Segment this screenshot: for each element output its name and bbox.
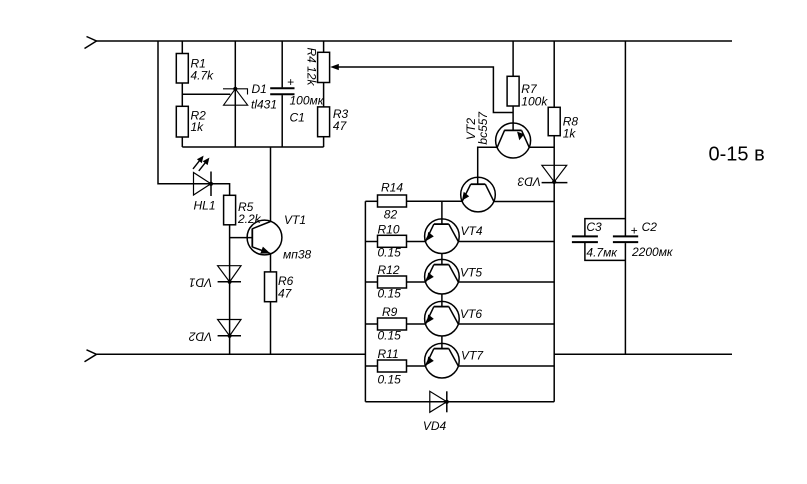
wire R4 wiper to VT2 base — [338, 67, 513, 113]
wire VT5-VT6 link — [441, 294, 443, 307]
svg-text:HL1: HL1 — [194, 199, 216, 213]
transistor VT2 — [496, 123, 531, 158]
wire R1-R2 — [181, 83, 183, 106]
svg-text:4.7k: 4.7k — [191, 68, 215, 82]
wire HL1 to R5 — [211, 184, 230, 196]
transistor VT4 — [425, 219, 460, 254]
resistor R8 — [548, 107, 560, 135]
input terminal bottom — [85, 350, 97, 362]
svg-text:D1: D1 — [252, 82, 267, 96]
input terminal top — [85, 37, 97, 49]
svg-text:VT1: VT1 — [284, 213, 306, 227]
svg-text:VT6: VT6 — [460, 307, 482, 321]
wire VT6 collector — [458, 323, 554, 325]
svg-text:C3: C3 — [586, 220, 602, 234]
wire VT3 emitter row / R14 — [406, 200, 462, 202]
svg-text:R10: R10 — [378, 222, 400, 236]
wire VD4 row left — [365, 401, 554, 403]
svg-text:VD4: VD4 — [423, 419, 447, 433]
svg-text:2.2k: 2.2k — [237, 212, 262, 226]
wire R2 bottom — [181, 137, 183, 147]
wire VT3 collector — [494, 201, 554, 203]
svg-text:0.15: 0.15 — [378, 246, 402, 260]
wire R7 top — [512, 41, 514, 76]
wire VT5 collector — [458, 281, 554, 283]
svg-text:VT5: VT5 — [460, 266, 482, 280]
wire bottom rail left — [97, 353, 366, 355]
wire bottom rail right — [554, 353, 732, 355]
svg-text:+: + — [287, 75, 294, 89]
op-amp D1 tl431 — [223, 89, 248, 105]
svg-text:R9: R9 — [382, 305, 398, 319]
capacitor C3 — [585, 219, 626, 236]
svg-text:1k: 1k — [563, 127, 577, 141]
svg-text:47: 47 — [278, 287, 293, 301]
resistor R11 — [365, 365, 377, 367]
diode VD2 — [218, 320, 241, 336]
wire R10 to VT4 emitter — [407, 241, 426, 243]
wire VT4 base — [441, 201, 443, 224]
transistor VT3 — [461, 177, 496, 212]
svg-text:VD1: VD1 — [189, 275, 212, 289]
svg-text:tl431: tl431 — [251, 98, 277, 112]
wire D1 column — [234, 41, 236, 147]
resistor R6 — [265, 272, 277, 302]
svg-text:4.7мк: 4.7мк — [586, 246, 618, 260]
resistor R5 — [224, 195, 236, 225]
svg-text:82: 82 — [384, 208, 398, 222]
svg-text:C1: C1 — [290, 110, 305, 124]
svg-text:0.15: 0.15 — [378, 373, 402, 387]
wire R11 to VT7 emitter — [407, 365, 426, 367]
diode VD4 — [430, 391, 447, 412]
resistor R12 — [365, 281, 377, 283]
svg-text:R14: R14 — [381, 180, 403, 194]
wire VT6-VT7 link — [441, 336, 443, 349]
wire right rail — [553, 182, 555, 402]
wire R4-R3 — [323, 83, 325, 107]
svg-text:R12: R12 — [378, 263, 400, 277]
svg-text:0-15 в: 0-15 в — [709, 143, 765, 165]
resistor R9 — [365, 323, 377, 325]
resistor R3 — [318, 107, 330, 137]
wire VT4 collector — [458, 241, 554, 243]
resistor R14 — [365, 200, 377, 202]
transistor VT1 — [247, 220, 282, 255]
svg-text:2200мк: 2200мк — [631, 245, 674, 259]
wire R3 bottom — [323, 137, 325, 147]
resistor R4 (pot) — [323, 41, 325, 52]
wire VT2 collector to VT3 base — [478, 147, 498, 184]
wire VT1 collector — [270, 147, 272, 222]
svg-text:1k: 1k — [191, 120, 205, 134]
svg-text:0.15: 0.15 — [378, 287, 402, 301]
wire R1 top — [181, 41, 183, 54]
wire R7 to VT2 base — [512, 106, 514, 130]
transistor VT5 — [425, 259, 460, 294]
wire divider to D1 ref — [182, 93, 230, 95]
svg-text:VD3: VD3 — [517, 175, 541, 189]
transistor VT6 — [425, 301, 460, 336]
resistor R7 — [507, 76, 519, 106]
diode VD3 — [542, 165, 567, 182]
svg-text:VT4: VT4 — [461, 224, 483, 238]
wire VT7 collector — [458, 365, 554, 367]
svg-text:R11: R11 — [378, 347, 399, 361]
transistor VT7 — [425, 343, 460, 378]
capacitor C2 — [624, 41, 626, 236]
svg-text:R4 12k: R4 12k — [305, 48, 319, 87]
wire R5 to VD column — [229, 225, 231, 354]
svg-text:100k: 100k — [521, 95, 548, 109]
svg-text:VD2: VD2 — [189, 329, 213, 343]
resistor R1 — [176, 54, 188, 84]
capacitor C1 — [281, 41, 283, 87]
svg-text:+: + — [631, 224, 638, 238]
diode VD1 — [218, 266, 241, 282]
svg-text:47: 47 — [333, 119, 348, 133]
wire R8 to VD3 — [553, 136, 555, 182]
wire VT2 emitter to R8 — [529, 146, 554, 148]
wire VT1 emitter — [270, 254, 272, 272]
svg-text:100мк: 100мк — [290, 94, 325, 108]
svg-text:VT7: VT7 — [461, 349, 484, 363]
LED HL1 — [194, 173, 211, 196]
wire R12 to VT5 emitter — [407, 281, 426, 283]
svg-text:мп38: мп38 — [283, 248, 312, 262]
wire R9 to VT6 emitter — [407, 323, 426, 325]
resistor R10 — [365, 241, 377, 243]
wire R6 bottom — [270, 302, 272, 355]
wire VT4-VT5 link — [441, 254, 443, 265]
wire HL1 branch — [158, 41, 211, 184]
wire R8 top — [553, 41, 555, 107]
svg-text:C2: C2 — [642, 220, 658, 234]
svg-text:bc557: bc557 — [476, 111, 490, 145]
wire sub rail — [182, 146, 323, 148]
wire left rail — [364, 201, 366, 401]
resistor R2 — [176, 106, 188, 137]
wire top rail — [97, 40, 733, 42]
wire VT1 base — [230, 237, 252, 239]
svg-text:0.15: 0.15 — [378, 329, 402, 343]
